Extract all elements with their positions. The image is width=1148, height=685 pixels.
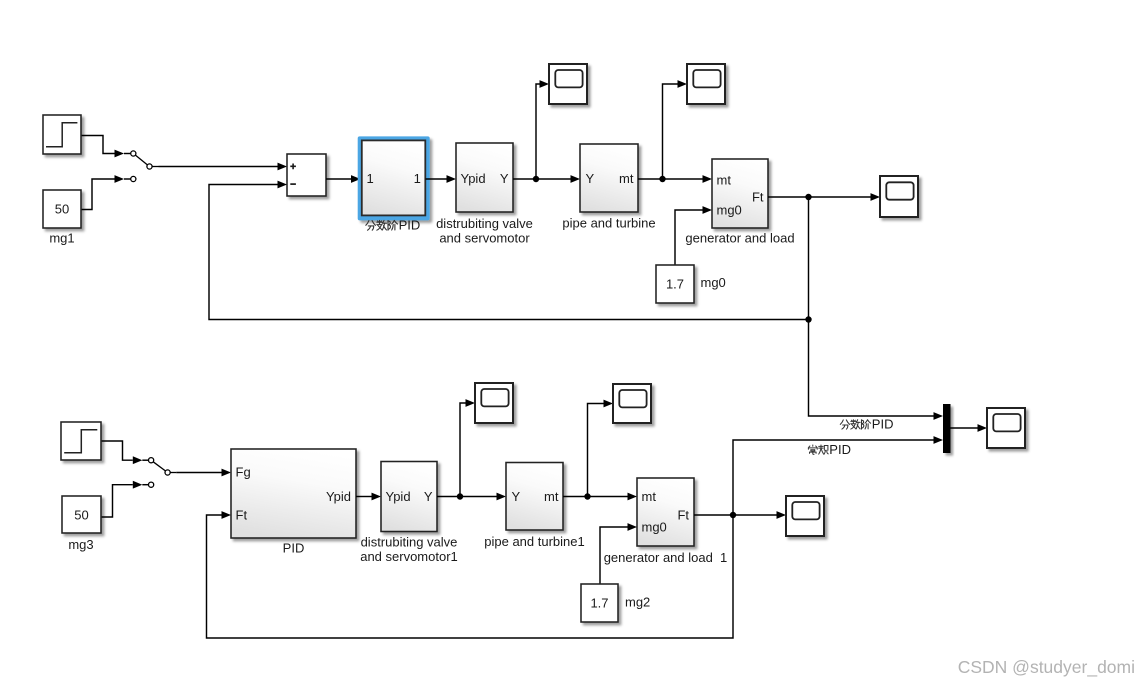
wire servo1 to pipe1 [437,496,497,498]
wire top feedback down to mux input 1 [809,197,934,416]
scope 2 [687,64,725,104]
svg-text:CSDN @studyer_domi: CSDN @studyer_domi [958,657,1135,678]
sum block [287,154,326,196]
manual switch 2 [149,458,177,476]
svg-text:mg1: mg1 [49,231,74,246]
svg-text:Ft: Ft [752,190,764,205]
wire junction to scope1 [536,84,540,179]
wire step2 to switch2 [101,441,148,460]
switch2 lower contact [149,482,154,487]
svg-text:generator and load 1: generator and load 1 [604,550,728,565]
wire mux to scope4 [951,427,978,429]
wire bottom to mux input 2 [733,440,934,515]
svg-text:50: 50 [74,507,88,522]
scope 1 [549,64,587,104]
step source Step [43,115,81,154]
wire constant 1.7 (mg2) to generator1 mg0 [600,527,628,584]
wire feedback to sum minus [209,185,809,320]
switch1 lower contact [131,176,136,181]
svg-text:distrubiting valve: distrubiting valve [361,535,458,550]
junction node after servo1 [457,493,463,499]
subsystem pipe and turbine1 [506,463,563,531]
constant 50 (mg1) [43,190,81,228]
wire bottom feedback loop to PID Ft [207,515,734,638]
scope 5 [475,383,513,423]
label 常规PID (signal name) [808,442,851,457]
junction node after pipe1 [584,493,590,499]
junction node after servo [533,176,539,182]
label 分数阶PID (signal name) [840,417,893,432]
subsystem distrubiting valve and servomotor [456,143,513,212]
manual switch 1 [131,151,159,169]
svg-text:generator and load: generator and load [685,231,794,246]
constant 50 (mg3) [62,496,101,533]
svg-text:mg0: mg0 [717,203,742,218]
svg-text:pipe and turbine: pipe and turbine [562,216,655,231]
constant 1.7 (mg2) [581,584,618,622]
wire constant mg1 to switch1 lower contact [81,179,130,210]
svg-text:mt: mt [619,171,634,186]
wire generator1 Ft to scope7 [694,514,777,516]
mux [943,404,951,453]
svg-text:Y: Y [500,171,509,186]
subsystem distrubiting valve and servomotor1 [381,462,437,532]
scope 7 [786,496,824,536]
subsystem PID [231,449,356,538]
svg-text:Ypid: Ypid [386,489,411,504]
scope 4 [987,408,1025,448]
svg-text:mg2: mg2 [625,595,650,610]
junction node Ft bottom [730,512,736,518]
svg-text:Ft: Ft [236,508,248,523]
svg-text:mt: mt [544,489,559,504]
wire switch2 to PID Fg [176,472,221,474]
svg-text:pipe and turbine1: pipe and turbine1 [484,534,584,549]
subsystem generator and load [712,159,768,228]
wire servo to pipe [513,178,571,180]
wire switch1 to sum plus [159,166,278,168]
wire constant mg3 to switch2 lower contact [101,485,148,517]
svg-text:PID: PID [399,218,421,233]
label 分数阶PID [366,218,420,233]
wire junction to scope2 [663,84,678,179]
wire step1 to switch1 [81,136,130,154]
svg-text:1: 1 [367,171,374,186]
svg-text:Ypid: Ypid [326,489,351,504]
subsystem 分数阶PID (selected, blue highlight) [358,136,430,220]
wire junction to scope6 [588,404,604,497]
svg-text:mt: mt [717,173,732,188]
wire constant 1.7 to generator mg0 [675,210,703,265]
svg-text:50: 50 [55,201,69,216]
svg-text:PID: PID [829,442,851,457]
scope 3 [880,176,918,217]
svg-text:mt: mt [642,489,657,504]
junction node after pipe [659,176,665,182]
wire fractional PID to servo [426,178,447,180]
wire PID to servo1 [356,496,372,498]
svg-text:1: 1 [414,171,421,186]
wire generator Ft to scope3 [768,196,871,198]
svg-text:and servomotor: and servomotor [439,230,530,245]
subsystem pipe and turbine [580,144,638,212]
svg-text:Ft: Ft [677,508,689,523]
svg-text:Ypid: Ypid [461,171,486,186]
step source Step1 [61,422,101,460]
svg-text:mg0: mg0 [642,520,667,535]
svg-text:1.7: 1.7 [590,596,608,611]
svg-text:mg0: mg0 [701,275,726,290]
junction node Ft top [805,194,811,200]
svg-text:Y: Y [424,489,433,504]
svg-text:Fg: Fg [236,465,251,480]
wire sum to fractional PID [326,178,351,180]
subsystem generator and load 1 [637,478,694,546]
wire junction to scope5 [460,403,466,497]
svg-text:distrubiting valve: distrubiting valve [436,216,533,231]
svg-text:Y: Y [586,171,595,186]
svg-text:PID: PID [872,417,894,432]
svg-text:PID: PID [283,541,305,556]
wire pipe to generator mt [638,178,703,180]
svg-text:1.7: 1.7 [666,277,684,292]
svg-text:mg3: mg3 [68,537,93,552]
scope 6 [613,384,651,423]
wire pipe1 to generator1 mt [563,496,628,498]
svg-text:Y: Y [512,489,521,504]
svg-text:and servomotor1: and servomotor1 [360,549,458,564]
junction node feedback top [805,316,811,322]
constant 1.7 (mg0) [656,265,694,303]
